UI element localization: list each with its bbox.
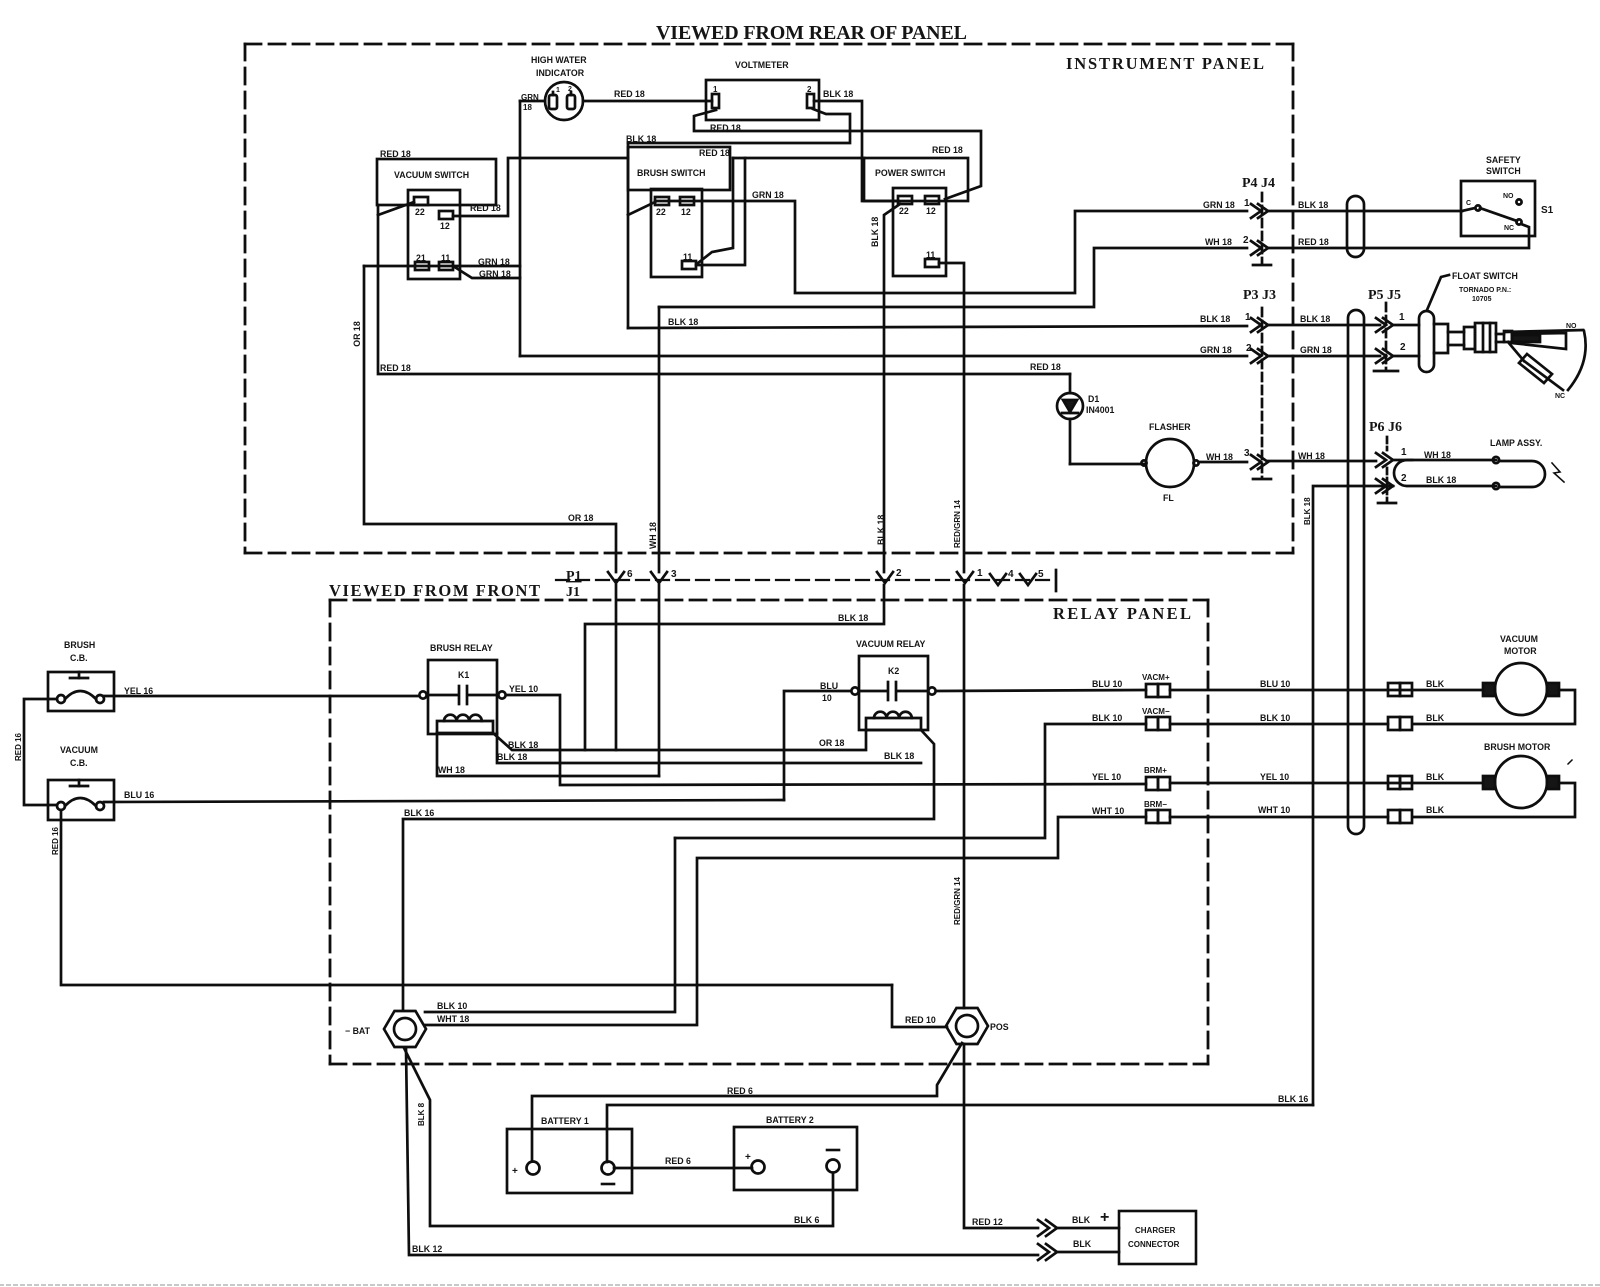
svg-text:BATTERY 1: BATTERY 1	[541, 1116, 589, 1126]
diode D1 IN4001	[1057, 374, 1114, 464]
svg-text:2: 2	[1243, 235, 1249, 246]
wire BLK 10 row2 from NEG	[675, 724, 1146, 838]
harness sleeve (small)	[1347, 196, 1364, 257]
svg-text:1: 1	[977, 568, 983, 579]
svg-text:2: 2	[896, 568, 902, 579]
inline connector VACM+	[1142, 673, 1170, 697]
brush circuit breaker	[48, 640, 114, 711]
wire BLK 18: power pin22 down to P1 pin 2	[884, 204, 900, 572]
svg-text:YEL 10: YEL 10	[1092, 772, 1121, 782]
svg-text:− BAT: − BAT	[345, 1026, 371, 1036]
svg-text:NO: NO	[1503, 193, 1514, 200]
svg-text:NC: NC	[1504, 225, 1514, 232]
instrument panel dashed border	[245, 44, 1293, 553]
inline connector VACM-	[1142, 707, 1170, 730]
svg-text:VACUUM RELAY: VACUUM RELAY	[856, 639, 926, 649]
svg-text:GRN 18: GRN 18	[1300, 345, 1332, 355]
svg-text:P3 J3: P3 J3	[1243, 288, 1276, 303]
svg-text:K1: K1	[458, 670, 469, 680]
wire RED 6: battery1 minus to battery2 plus	[614, 1167, 752, 1170]
wire BLU 10 row1 to motor	[1170, 689, 1483, 692]
svg-text:BLK 18: BLK 18	[823, 89, 853, 99]
svg-text:YEL 16: YEL 16	[124, 686, 153, 696]
svg-text:BLK 18: BLK 18	[876, 515, 886, 545]
svg-text:RED 12: RED 12	[972, 1217, 1003, 1227]
svg-text:BLK 18: BLK 18	[870, 217, 880, 247]
svg-text:BLK 18: BLK 18	[668, 317, 698, 327]
svg-text:BLK 18: BLK 18	[1300, 314, 1330, 324]
wire BLK 16: K2 coil right to NEG terminal	[403, 730, 934, 1010]
wire BLK 10: NEG terminal to row2 riser	[425, 838, 675, 1012]
wire BLU 10: K2 contact right to vacuum motor row	[936, 690, 1146, 691]
svg-text:MOTOR: MOTOR	[1504, 646, 1537, 656]
svg-text:BRM+: BRM+	[1144, 766, 1167, 775]
wire BLK 18: P4 pin1 to safety switch C	[1268, 210, 1462, 213]
svg-text:RED 18: RED 18	[380, 149, 411, 159]
svg-text:WHT 10: WHT 10	[1258, 805, 1290, 815]
svg-text:FLASHER: FLASHER	[1149, 422, 1191, 432]
svg-text:BLU: BLU	[820, 681, 838, 691]
svg-text:OR 18: OR 18	[568, 513, 594, 523]
svg-text:NC: NC	[1555, 393, 1565, 400]
svg-text:1: 1	[556, 87, 560, 94]
svg-text:1: 1	[1244, 198, 1250, 209]
wire WH 18: flasher to P3 pin 3	[1199, 461, 1247, 464]
svg-text:4: 4	[1008, 569, 1014, 580]
svg-text:12: 12	[681, 207, 691, 217]
wire: C.B. left bus	[24, 699, 57, 805]
svg-text:RED/GRN 14: RED/GRN 14	[953, 499, 962, 548]
power switch	[864, 145, 968, 276]
svg-text:OR 18: OR 18	[819, 738, 845, 748]
battery 2	[734, 1115, 857, 1190]
brush switch	[626, 134, 730, 277]
svg-text:BLK: BLK	[1426, 713, 1445, 723]
wire BLK 12: NEG down to charger connector	[406, 1048, 1038, 1255]
svg-text:SWITCH: SWITCH	[1486, 166, 1521, 176]
svg-text:BATTERY 2: BATTERY 2	[766, 1115, 814, 1125]
svg-text:YEL 10: YEL 10	[1260, 772, 1289, 782]
svg-text:POWER SWITCH: POWER SWITCH	[875, 168, 945, 178]
svg-text:P4 J4: P4 J4	[1242, 176, 1275, 191]
svg-text:BRUSH MOTOR: BRUSH MOTOR	[1484, 742, 1551, 752]
wire RED 18: indicator to voltmeter pin 1	[583, 100, 712, 103]
svg-text:S1: S1	[1541, 205, 1554, 216]
svg-text:GRN 18: GRN 18	[1200, 345, 1232, 355]
svg-text:RED 18: RED 18	[1298, 237, 1329, 247]
svg-text:1: 1	[1401, 447, 1407, 458]
svg-text:11: 11	[683, 252, 692, 262]
wire WHT 18: NEG terminal to row4	[425, 817, 1146, 1025]
brush relay K1	[419, 643, 505, 734]
wire: vacuum switch pin22 diagonal to left wall	[378, 202, 414, 215]
wire GRN second row with diagonal	[453, 266, 520, 278]
svg-text:BLK 18: BLK 18	[1298, 200, 1328, 210]
wire GRN: indicator to vacuum switch pins 21/11 and P3 pin 2	[520, 101, 1247, 356]
wire BLK: vacuum motor return loop	[1414, 690, 1575, 724]
svg-text:J1: J1	[566, 585, 580, 600]
wire BLU 10: K2 contact left to vacuum C.B. line	[784, 691, 851, 800]
inline connector BRM-	[1144, 800, 1170, 823]
wire RED/GRN 14: P1 pin1 down to POS terminal	[963, 585, 966, 1008]
svg-text:BRUSH SWITCH: BRUSH SWITCH	[637, 168, 705, 178]
svg-text:RED 18: RED 18	[614, 89, 645, 99]
wire BLK 18: P1 pin2 down to coil bus	[585, 585, 884, 750]
svg-text:RED 16: RED 16	[14, 732, 23, 761]
wire WH: brush pin11 to label-box top line	[696, 158, 745, 265]
positive battery terminal	[905, 1008, 1009, 1044]
wire OR 18: vacuum pin21 down to P1 pin 6	[364, 266, 616, 572]
wire row4 mid	[1170, 816, 1388, 819]
wire YEL 16: brush C.B. to relay K1 contact	[104, 695, 419, 698]
harness sleeve (long)	[1348, 310, 1364, 834]
svg-text:RED 10: RED 10	[905, 1015, 936, 1025]
svg-text:22: 22	[656, 207, 666, 217]
svg-text:21: 21	[416, 253, 426, 263]
wire GRN 18: P3 pin2 to P5 pin2	[1268, 355, 1380, 358]
wire BLK 18: voltmeter pin2 to brush switch pin 22 branch	[628, 109, 850, 143]
lamp assy	[1394, 438, 1564, 489]
svg-text:3: 3	[1244, 448, 1250, 459]
svg-text:LAMP ASSY.: LAMP ASSY.	[1490, 438, 1542, 448]
svg-text:BRUSH: BRUSH	[64, 640, 95, 650]
inline connector pair row1	[1388, 683, 1412, 696]
svg-text:BLK 8: BLK 8	[417, 1102, 426, 1126]
wire BLK 8: NEG down to battery 2 minus	[404, 1048, 833, 1226]
svg-text:2: 2	[1400, 342, 1406, 353]
wire BLK 18: brush pin22 riser down to P3 pin1 line	[628, 143, 1247, 328]
svg-text:YEL 10: YEL 10	[509, 684, 538, 694]
svg-text:BRUSH RELAY: BRUSH RELAY	[430, 643, 493, 653]
connector chevrons charger minus	[1038, 1244, 1057, 1260]
float switch	[1393, 271, 1586, 400]
svg-text:+: +	[1100, 1209, 1109, 1226]
svg-text:12: 12	[440, 221, 450, 231]
svg-text:WHT 10: WHT 10	[1092, 806, 1124, 816]
svg-text:NO: NO	[1566, 323, 1577, 330]
svg-text:BLK 18: BLK 18	[626, 134, 656, 144]
svg-text:CHARGER: CHARGER	[1135, 1226, 1176, 1235]
voltmeter	[706, 60, 819, 120]
high water indicator	[531, 55, 587, 120]
svg-text:RED 18: RED 18	[1030, 362, 1061, 372]
svg-text:BLK 18: BLK 18	[1200, 314, 1230, 324]
wire WH 18: P1 pin3 up to P4 pin 2	[659, 248, 1247, 572]
svg-text:BLK 18: BLK 18	[508, 740, 538, 750]
wire RED 16: vacuum C.B. down to POS terminal	[61, 810, 892, 985]
svg-text:BLK 16: BLK 16	[404, 808, 434, 818]
wire: P1 pin3 down	[658, 585, 661, 776]
svg-text:11: 11	[926, 250, 935, 260]
wire BLK 18: K1 coil right to K2 coil right	[497, 733, 921, 763]
svg-text:WH 18: WH 18	[648, 522, 658, 549]
connector P1 pins	[566, 568, 1044, 600]
svg-text:BLK 18: BLK 18	[884, 751, 914, 761]
wire to charger minus	[1057, 1251, 1119, 1254]
svg-text:INSTRUMENT PANEL: INSTRUMENT PANEL	[1066, 54, 1264, 73]
svg-text:VACM+: VACM+	[1142, 673, 1170, 682]
svg-text:BLK: BLK	[1426, 772, 1445, 782]
safety switch S1	[1461, 155, 1554, 236]
svg-text:VIEWED FROM REAR OF PANEL: VIEWED FROM REAR OF PANEL	[656, 22, 968, 44]
svg-text:BLK 10: BLK 10	[437, 1001, 467, 1011]
svg-text:BLU 10: BLU 10	[1260, 679, 1290, 689]
svg-text:WH 18: WH 18	[438, 765, 465, 775]
svg-text:WH 18: WH 18	[1206, 452, 1233, 462]
wire OR/BLK 18: K1 coil to K2 coil (bus with P1-6, P1-2)	[493, 731, 866, 750]
flasher FL	[1141, 422, 1198, 503]
wire WH 18: P6 pin1 to lamp	[1393, 459, 1412, 462]
svg-text:P5 J5: P5 J5	[1368, 288, 1401, 303]
svg-text:RED 6: RED 6	[665, 1156, 691, 1166]
negative battery terminal	[345, 1011, 426, 1047]
svg-text:BLK 18: BLK 18	[1426, 475, 1456, 485]
svg-text:+: +	[512, 1166, 518, 1177]
svg-text:RED 6: RED 6	[727, 1086, 753, 1096]
svg-text:VIEWED FROM FRONT: VIEWED FROM FRONT	[329, 581, 540, 600]
wire: diode to flasher	[1070, 463, 1144, 466]
svg-text:C.B.: C.B.	[70, 653, 88, 663]
svg-text:RED 18: RED 18	[470, 203, 501, 213]
svg-text:BLK: BLK	[1426, 679, 1445, 689]
svg-text:12: 12	[926, 206, 936, 216]
wire OR 18: P1 pin6 down to coil bus	[615, 585, 618, 750]
wire RED/GRN 14: power pin11 down to P1 pin 1	[939, 263, 964, 572]
svg-text:5: 5	[1038, 569, 1044, 580]
connector P6 J6	[1369, 420, 1407, 503]
svg-text:D1: D1	[1088, 394, 1099, 404]
wire RED 18: vacuum switch area down and right to diode D1	[378, 205, 1070, 374]
wire RED 6: POS down to battery 1 plus	[532, 1043, 962, 1161]
svg-text:22: 22	[899, 206, 909, 216]
connector P4 J4	[1242, 176, 1275, 265]
svg-text:BLU 16: BLU 16	[124, 790, 154, 800]
svg-text:POS: POS	[990, 1022, 1009, 1032]
svg-text:2: 2	[807, 85, 812, 94]
connector P1 J1 dashed line	[556, 579, 1052, 581]
svg-text:FL: FL	[1163, 493, 1174, 503]
svg-text:2: 2	[568, 86, 572, 93]
wire GRN 18: brush pins row to P4 pin 1	[655, 201, 1247, 293]
relay panel dashed border	[330, 600, 1208, 1064]
svg-text:SAFETY: SAFETY	[1486, 155, 1521, 165]
svg-text:FLOAT SWITCH: FLOAT SWITCH	[1452, 271, 1518, 281]
svg-text:GRN 18: GRN 18	[1203, 200, 1235, 210]
connector P3 J3	[1243, 288, 1276, 479]
svg-text:+: +	[745, 1152, 751, 1163]
wire YEL 10: K1 contact to brush motor row	[506, 695, 1146, 785]
wire RED 18: riser to brush pin 11	[698, 158, 733, 263]
wire: y158 segment to power label box	[733, 157, 864, 160]
wire RED 18: voltmeter pin1 under-route to power switch pin 12	[694, 110, 981, 199]
svg-text:VOLTMETER: VOLTMETER	[735, 60, 789, 70]
svg-text:RED/GRN 14: RED/GRN 14	[953, 876, 962, 925]
inline connector pair row3	[1388, 776, 1412, 789]
svg-text:BLK 18: BLK 18	[497, 752, 527, 762]
svg-text:BLK 16: BLK 16	[1278, 1094, 1308, 1104]
inline connector pair row4	[1388, 810, 1412, 823]
wire RED 18: P4 pin2 to safety switch NC	[1268, 224, 1529, 248]
svg-text:RED 16: RED 16	[51, 826, 60, 855]
svg-text:RED 18: RED 18	[699, 148, 730, 158]
svg-text:6: 6	[627, 569, 633, 580]
svg-text:GRN 18: GRN 18	[479, 269, 511, 279]
svg-text:BLK 12: BLK 12	[412, 1244, 442, 1254]
svg-text:RED 18: RED 18	[380, 363, 411, 373]
wire YEL 10 row3 to brush motor	[1170, 782, 1483, 785]
svg-text:BLK 6: BLK 6	[794, 1215, 820, 1225]
svg-text:P6 J6: P6 J6	[1369, 420, 1402, 435]
svg-text:1: 1	[1245, 312, 1251, 323]
vacuum motor	[1483, 634, 1559, 715]
svg-text:INDICATOR: INDICATOR	[536, 68, 585, 78]
wire to charger plus	[1057, 1227, 1119, 1230]
wire GRN: vacuum pins 21/11 row	[364, 265, 520, 268]
svg-text:WH 18: WH 18	[1298, 451, 1325, 461]
brush motor	[1483, 742, 1572, 808]
svg-text:BLU 10: BLU 10	[1092, 679, 1122, 689]
svg-text:11: 11	[441, 253, 450, 263]
vacuum relay K2	[851, 639, 935, 730]
inline connector pair row2	[1388, 717, 1412, 730]
vacuum switch	[377, 149, 496, 279]
svg-text:BLK 18: BLK 18	[1303, 497, 1312, 525]
wire BLK 18: voltmeter pin2 to power switch pin 22	[814, 101, 898, 201]
svg-text:VACUUM SWITCH: VACUUM SWITCH	[394, 170, 469, 180]
svg-text:C: C	[1466, 200, 1471, 207]
svg-text:K2: K2	[888, 666, 899, 676]
svg-text:P1: P1	[566, 569, 582, 584]
svg-text:GRN 18: GRN 18	[752, 190, 784, 200]
svg-text:1: 1	[1399, 312, 1405, 323]
svg-text:BLK: BLK	[1072, 1215, 1091, 1225]
wire RED 12: POS down to charger	[964, 1044, 1038, 1228]
connector P1 end bar	[1055, 570, 1058, 591]
bottom scan artifact line	[0, 1284, 1600, 1286]
svg-text:WH 18: WH 18	[1205, 237, 1232, 247]
wire RED 16/10: left feed into POS	[892, 985, 947, 1027]
svg-text:BLK 10: BLK 10	[1092, 713, 1122, 723]
svg-text:2: 2	[1401, 473, 1407, 484]
svg-text:VACM−: VACM−	[1142, 707, 1170, 716]
svg-text:TORNADO P.N.:: TORNADO P.N.:	[1459, 287, 1511, 294]
vacuum circuit breaker	[48, 745, 114, 820]
svg-text:BLK: BLK	[1073, 1239, 1092, 1249]
svg-text:WH 18: WH 18	[1424, 450, 1451, 460]
svg-text:GRN 18: GRN 18	[478, 257, 510, 267]
wire BLK 16: lamp return to battery 1 minus	[607, 1105, 1313, 1162]
svg-text:RELAY PANEL: RELAY PANEL	[1053, 604, 1191, 623]
svg-text:VACUUM: VACUUM	[60, 745, 98, 755]
svg-text:10: 10	[822, 693, 832, 703]
wire row2 mid	[1170, 723, 1388, 726]
svg-text:CONNECTOR: CONNECTOR	[1128, 1240, 1180, 1249]
svg-text:3: 3	[671, 569, 677, 580]
svg-text:BRM−: BRM−	[1144, 800, 1167, 809]
wire BLK 18: lamp return down the right side	[1313, 486, 1393, 1105]
wire WH 18: K1 coil left to P1 pin3	[437, 733, 659, 776]
svg-text:BLK 10: BLK 10	[1260, 713, 1290, 723]
wire BLK: brush motor return loop	[1414, 783, 1575, 817]
svg-text:22: 22	[415, 207, 425, 217]
svg-text:RED 18: RED 18	[710, 123, 741, 133]
svg-text:1: 1	[713, 85, 718, 94]
charger connector	[1119, 1211, 1196, 1264]
svg-text:BLK 18: BLK 18	[838, 613, 868, 623]
svg-text:VACUUM: VACUUM	[1500, 634, 1538, 644]
svg-text:OR 18: OR 18	[352, 321, 362, 347]
svg-text:18: 18	[523, 103, 532, 112]
svg-text:C.B.: C.B.	[70, 758, 88, 768]
wire BLK 18: P3 pin1 to P5 pin1	[1268, 324, 1380, 327]
svg-text:RED 18: RED 18	[932, 145, 963, 155]
inline connector BRM+	[1144, 766, 1170, 790]
svg-text:2: 2	[1246, 343, 1252, 354]
svg-text:HIGH WATER: HIGH WATER	[531, 55, 587, 65]
wire RED 18: vacuum pin12 to brush pin11 (riser)	[453, 158, 628, 216]
svg-text:WHT 18: WHT 18	[437, 1014, 469, 1024]
svg-text:BLK: BLK	[1426, 805, 1445, 815]
wire BLU 16: vacuum C.B. to relay K2 contact	[104, 800, 784, 802]
battery 1	[507, 1116, 632, 1193]
svg-text:10705: 10705	[1472, 296, 1492, 303]
wire WH 18: P3 pin3 to P6 pin1	[1268, 460, 1376, 463]
svg-text:IN4001: IN4001	[1086, 405, 1114, 415]
connector P5 J5	[1368, 288, 1406, 371]
connector chevrons charger plus	[1038, 1220, 1057, 1236]
